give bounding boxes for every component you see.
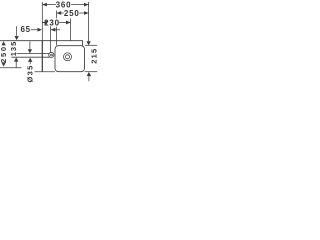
svg-text:230: 230 (44, 18, 60, 27)
svg-text:Ø35: Ø35 (26, 64, 35, 82)
extension line V1 upper (41, 2, 43, 41)
extension line V2 (50, 26, 52, 52)
drain inner circle (66, 55, 70, 59)
arrow 135 up (14, 57, 18, 61)
arrow 230 right (66, 21, 71, 25)
dim 230 line (42, 22, 70, 24)
dim o35 lower arrow tail (29, 62, 31, 64)
extension line V4 (70, 19, 72, 41)
extension line V5 right (88, 2, 90, 41)
basket outline (rounded square, top view) (55, 46, 85, 72)
dim 135 upper arrow tail (16, 26, 18, 36)
arrow 65 right-pointing (38, 28, 42, 32)
dim 65 line (31, 29, 60, 31)
tick bottom of 250v (0, 67, 22, 69)
arrow 65 left-pointing (51, 28, 55, 32)
arrow 250v up (1, 41, 5, 45)
bottom edge extension line left of basket (35, 71, 56, 73)
drain outer circle (64, 53, 72, 61)
rail end cap outer circle (49, 52, 54, 57)
dim 135 lower arrow tail (15, 61, 17, 67)
svg-text:215: 215 (89, 48, 98, 64)
arrow o35 up (28, 58, 32, 62)
arrow 250 left (57, 11, 62, 15)
rail top line (side view) (17, 53, 50, 55)
arrow o35 down (28, 49, 32, 53)
dim 215 lower arrow tail (88, 76, 90, 82)
arrow 360 left (42, 3, 47, 7)
rail end cap hole (51, 54, 53, 56)
rail bottom line / extension (11, 56, 49, 58)
arrow 215 up (87, 72, 91, 76)
svg-text:65: 65 (20, 25, 31, 34)
edge line V1 lower (41, 41, 43, 72)
arrow 360 right (84, 3, 89, 7)
arrow 250v down (1, 62, 5, 66)
extension line V3 (56, 11, 58, 46)
arrow 135 down (14, 36, 18, 40)
svg-text:250: 250 (64, 9, 80, 18)
wall line with right jog (0, 41, 83, 46)
arrow 250 right (84, 11, 89, 15)
dim 250 line (57, 12, 89, 14)
dim 360 line (42, 4, 88, 6)
arrow 230 left (42, 21, 47, 25)
dim o35 upper arrow tail (29, 41, 31, 49)
tick bottom of 215 / basket bottom (85, 71, 98, 73)
svg-text:250: 250 (0, 45, 8, 63)
arrow 215 down (86, 41, 90, 45)
svg-text:135: 135 (9, 41, 18, 57)
tick top of 215 (85, 44, 97, 46)
